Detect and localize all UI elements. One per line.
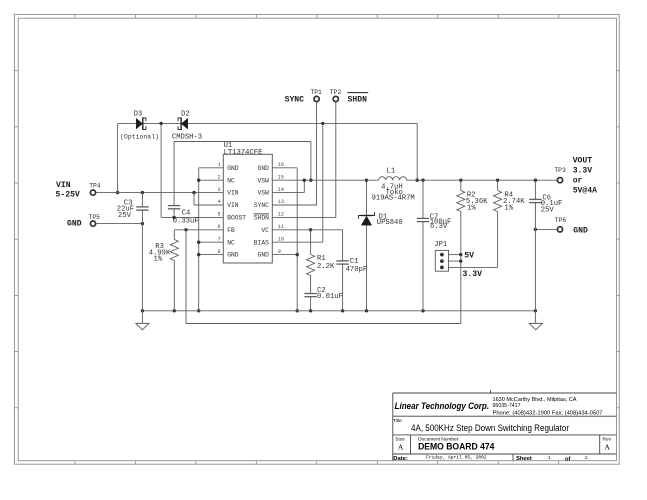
junction D1/VSW [365,179,368,182]
wire R4 elbow to JP1 [449,266,498,268]
junction VIN/pin4 elbow [192,191,195,194]
wire FB return [186,323,461,325]
svg-text:95035-7417: 95035-7417 [493,403,521,409]
svg-text:TP3: TP3 [554,167,566,174]
svg-text:Title: Title [393,418,402,424]
svg-text:Linear Technology Corp.: Linear Technology Corp. [395,401,490,411]
svg-text:5V: 5V [464,252,474,261]
svg-text:3.3V: 3.3V [573,166,593,175]
svg-text:25V: 25V [541,207,555,215]
svg-text:C4: C4 [182,209,191,217]
junction rail/left end [141,309,144,312]
resistor R1 [310,230,312,255]
svg-text:12: 12 [278,212,284,218]
svg-text:1: 1 [548,455,551,461]
svg-text:FB: FB [227,227,235,234]
test point TP2 [333,96,338,101]
svg-text:TP2: TP2 [330,89,342,96]
capacitor C6 [534,180,536,199]
svg-text:11: 11 [278,224,284,230]
svg-text:10: 10 [278,236,284,242]
svg-text:5V@4A: 5V@4A [573,186,597,195]
svg-text:GND: GND [227,252,239,259]
junction VOUT/R2 [459,179,462,182]
frame zone ticks [74,14,76,18]
wire C4 top loop [174,141,311,143]
wire gnd rail [142,310,535,312]
junction VC/R1 [309,228,312,231]
svg-text:1%: 1% [467,204,476,212]
svg-text:GND: GND [258,252,270,259]
junction D3/VIN rail [116,191,119,194]
wire pin14 elbow [272,192,304,194]
svg-text:6.3V: 6.3V [430,223,448,231]
junction JP1 pin2/FB [459,259,462,262]
diode D3 (optional) [136,118,142,128]
junction pin7/gnd tie [197,241,200,244]
wire BOOST vertical [160,123,162,217]
svg-text:6: 6 [217,224,220,230]
wire BOOST row [161,216,223,218]
svg-text:3.3V: 3.3V [463,270,483,279]
title block frame [392,393,394,461]
junction TP6/C6 line [534,228,537,231]
svg-text:VC: VC [261,227,269,234]
svg-text:470pF: 470pF [346,266,368,274]
test point TP3 [557,178,562,183]
svg-text:GND: GND [573,226,588,235]
svg-text:1%: 1% [504,204,513,212]
svg-text:4: 4 [217,199,220,205]
wire VOUT rail [417,179,557,181]
junction pin8/gnd tie [197,253,200,256]
capacitor C7 [422,180,424,218]
wire D3 anode to VIN rail [117,123,119,192]
wire pin1 gnd elbow [199,167,224,169]
svg-text:D2: D2 [181,110,190,118]
svg-text:Sheet: Sheet [516,456,532,462]
svg-text:5-25V: 5-25V [56,191,80,200]
svg-text:1: 1 [217,162,220,168]
test point TP4 [90,190,95,195]
svg-text:13: 13 [278,199,284,205]
svg-text:NC: NC [227,239,235,246]
svg-text:VIN: VIN [56,181,71,190]
junction FB/divider [184,228,187,231]
svg-text:0.01uF: 0.01uF [317,293,343,301]
svg-text:UPS840: UPS840 [377,219,403,227]
junction pin9/gnd vertical [296,253,299,256]
svg-text:Phone: (408)432-1900 Fax: (408: Phone: (408)432-1900 Fax: (408)434-0507 [493,411,603,417]
svg-text:4A, 500KHz Step Down Switching: 4A, 500KHz Step Down Switching Regulator [411,423,569,433]
wire TP5 gnd [97,223,143,225]
capacitor C1 [342,230,344,261]
junction VSW pins [303,179,306,182]
svg-text:A: A [398,442,404,451]
svg-text:JP1: JP1 [434,241,447,249]
junction L1/rail elbow [416,179,419,182]
junction rail/C1 [341,309,344,312]
svg-text:or: or [573,176,583,185]
svg-text:SYNC: SYNC [285,96,305,105]
ground symbol left [141,311,143,324]
junction rail/R3 [173,309,176,312]
svg-text:NC: NC [227,177,235,184]
svg-text:VSW: VSW [258,177,270,184]
junction VOUT/C6 [534,179,537,182]
svg-text:VIN: VIN [227,190,239,197]
ground symbol right [534,311,536,324]
wire top boost/VOUT rail [118,122,418,124]
svg-text:DEMO BOARD 474: DEMO BOARD 474 [418,441,494,451]
svg-text:GND: GND [258,165,270,172]
test point TP6 [557,227,562,232]
junction TP5/C3 line [141,222,144,225]
resistor R2 [460,180,462,190]
svg-text:16: 16 [278,162,284,168]
junction BIAS/top rail [321,122,324,125]
svg-text:919AS-4R7M: 919AS-4R7M [372,195,415,203]
svg-text:TP5: TP5 [89,214,101,221]
wire pin16 gnd elbow [272,167,297,169]
wire pin9 stub [272,254,297,256]
wire SYNC to TP1 [272,204,316,206]
capacitor C4 [168,205,180,207]
wire BIAS row [272,241,323,243]
junction rail/C7 [421,309,424,312]
wire VIN rail [97,192,224,194]
wire VC row [272,229,342,231]
wire VSW row to L1 [272,179,366,181]
wire pin8 stub [199,254,224,256]
junction VIN/C3 [141,191,144,194]
test point TP5 [90,221,95,226]
svg-text:SHDN: SHDN [254,215,269,222]
svg-text:3: 3 [217,187,220,193]
svg-text:TP6: TP6 [555,217,567,224]
svg-text:TP1: TP1 [311,89,323,96]
svg-text:VSW: VSW [258,190,270,197]
svg-text:SHDN: SHDN [348,95,368,104]
svg-text:VOUT: VOUT [573,156,593,165]
diode D2 CMDSH-3 [181,118,187,128]
svg-text:1%: 1% [154,256,163,264]
junction VOUT/C7 [421,179,424,182]
wire pin2 stub [199,179,224,181]
junction rail/right end [534,309,537,312]
resistor R3 [173,230,175,240]
svg-text:8: 8 [217,249,220,255]
wire SHDN to TP2 [272,216,336,218]
op-amp U1 LT1374CFE box [223,154,272,263]
svg-text:CMDSH-3: CMDSH-3 [172,134,202,142]
wire pin4 elbow [193,193,195,205]
svg-text:TP4: TP4 [89,182,101,189]
svg-text:25V: 25V [118,212,132,220]
svg-text:15: 15 [278,174,284,180]
junction pin2/gnd tie [197,179,200,182]
resistor R4 [497,180,499,190]
svg-text:1: 1 [585,455,588,461]
svg-text:SYNC: SYNC [254,202,269,209]
svg-text:2: 2 [217,174,220,180]
svg-text:GND: GND [227,165,239,172]
svg-text:C1: C1 [350,258,359,266]
junction JP1 pin1/R2 [459,253,462,256]
test point TP1 [314,96,319,101]
svg-text:Friday, April 05, 2002: Friday, April 05, 2002 [426,455,487,461]
wire FB divider vertical [185,230,187,324]
wire FB row [174,229,223,231]
svg-text:Date:: Date: [393,456,408,462]
wire pin7 stub [199,241,224,243]
svg-text:2.2K: 2.2K [317,263,335,271]
junction C4/BOOST [172,216,175,219]
svg-text:7: 7 [217,236,220,242]
connector JP1 [435,250,448,271]
svg-text:of: of [565,456,571,462]
svg-text:(Optional): (Optional) [120,133,159,140]
svg-text:5: 5 [217,212,220,218]
svg-text:GND: GND [67,219,82,228]
svg-text:D3: D3 [134,110,143,118]
wire rail elbow to L1 right [416,123,418,180]
capacitor C3 [141,193,143,207]
svg-text:9: 9 [278,249,281,255]
wire R2 bottom to FB return [460,255,462,324]
svg-text:BOOST: BOOST [227,215,246,222]
wire JP1 pin1 [449,254,461,256]
capacitor C2 [304,293,316,295]
svg-text:VIN: VIN [227,202,239,209]
svg-text:L1: L1 [387,168,396,176]
svg-text:BIAS: BIAS [254,239,269,246]
wire JP1 pin2 [449,260,461,262]
junction diode rail/BOOST [159,122,162,125]
diode D1 UPS840 [366,180,368,215]
wire TP6 row [535,228,557,230]
inductor L1 [366,177,417,181]
junction rail/R1C2 [309,309,312,312]
svg-text:A: A [605,442,611,451]
svg-text:LT1374CFE: LT1374CFE [224,149,263,157]
junction right gnd/rail [296,309,299,312]
junction C4 loop/VSW [309,179,312,182]
junction VOUT/R4 [496,179,499,182]
svg-text:0.33uF: 0.33uF [173,217,199,225]
svg-text:14: 14 [278,187,284,193]
junction rail/D1 [365,309,368,312]
wire BIAS vertical [322,123,324,242]
junction gnd tie/rail [197,309,200,312]
